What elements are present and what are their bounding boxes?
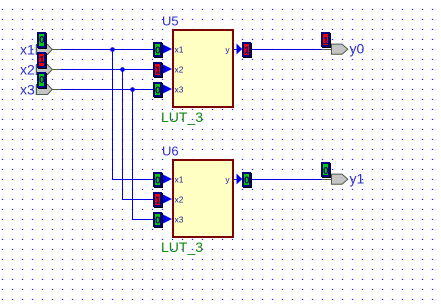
component U5 LUT_3 block bbox=[161, 13, 233, 125]
svg-text:1: 1 bbox=[155, 66, 161, 77]
wire U6 y box to terminal y1 bbox=[252, 179, 322, 181]
wire branch x1 down to U6 pin x1 bbox=[113, 50, 155, 180]
component U6 LUT_3 block bbox=[161, 143, 233, 255]
svg-text:0: 0 bbox=[155, 216, 161, 227]
svg-text:0: 0 bbox=[244, 176, 250, 187]
svg-text:x3: x3 bbox=[20, 81, 35, 97]
svg-text:x1: x1 bbox=[175, 45, 184, 55]
svg-text:1: 1 bbox=[323, 36, 329, 47]
wire U5 y box to terminal y0 bbox=[252, 49, 322, 51]
terminal x3 bbox=[20, 72, 61, 97]
junction node x2 branch bbox=[120, 67, 125, 72]
svg-text:x3: x3 bbox=[175, 85, 184, 95]
svg-text:U5: U5 bbox=[162, 13, 179, 28]
wire x2 terminal to U5 pin x2 bbox=[61, 69, 154, 71]
U5 pin x2 bbox=[153, 62, 184, 78]
svg-text:x3: x3 bbox=[175, 215, 184, 225]
wire x3 terminal to U5 pin x3 bbox=[61, 89, 154, 91]
terminal y1 bbox=[321, 162, 365, 187]
terminal x1 bbox=[20, 32, 61, 57]
svg-text:LUT_3: LUT_3 bbox=[161, 239, 203, 255]
svg-text:y1: y1 bbox=[350, 171, 365, 187]
U6 pin x2 bbox=[153, 192, 184, 208]
svg-text:x2: x2 bbox=[175, 65, 184, 75]
wire U6 y to output triangle bbox=[234, 179, 237, 181]
U5 pin x3 bbox=[153, 82, 184, 98]
terminal y0 bbox=[321, 32, 365, 57]
svg-text:1: 1 bbox=[155, 196, 161, 207]
U6 pin x3 bbox=[153, 212, 184, 228]
svg-text:1: 1 bbox=[39, 55, 45, 66]
svg-text:0: 0 bbox=[39, 35, 45, 46]
U6 pin y output bbox=[225, 172, 252, 188]
terminal x2 bbox=[20, 52, 61, 77]
svg-text:x1: x1 bbox=[20, 41, 35, 57]
svg-text:x2: x2 bbox=[20, 61, 35, 77]
wire branch x2 down to U6 pin x2 bbox=[123, 70, 155, 200]
svg-text:0: 0 bbox=[155, 46, 161, 57]
U6 pin x1 bbox=[153, 172, 184, 188]
junction node x3 branch bbox=[130, 87, 135, 92]
svg-text:0: 0 bbox=[39, 75, 45, 86]
svg-text:x1: x1 bbox=[175, 175, 184, 185]
wire x1 terminal to U5 pin x1 bbox=[61, 49, 154, 51]
svg-text:x2: x2 bbox=[175, 195, 184, 205]
svg-text:1: 1 bbox=[244, 46, 250, 57]
svg-text:0: 0 bbox=[155, 86, 161, 97]
wire U5 y to output triangle bbox=[234, 49, 237, 51]
svg-text:U6: U6 bbox=[162, 143, 179, 158]
U5 pin y output bbox=[225, 42, 252, 58]
wire branch x3 down to U6 pin x3 bbox=[133, 90, 155, 220]
U5 pin x1 bbox=[153, 42, 184, 58]
svg-text:0: 0 bbox=[155, 176, 161, 187]
svg-text:y0: y0 bbox=[350, 41, 365, 57]
svg-text:0: 0 bbox=[323, 166, 329, 177]
junction node x1 branch bbox=[110, 47, 115, 52]
svg-text:LUT_3: LUT_3 bbox=[161, 109, 203, 125]
